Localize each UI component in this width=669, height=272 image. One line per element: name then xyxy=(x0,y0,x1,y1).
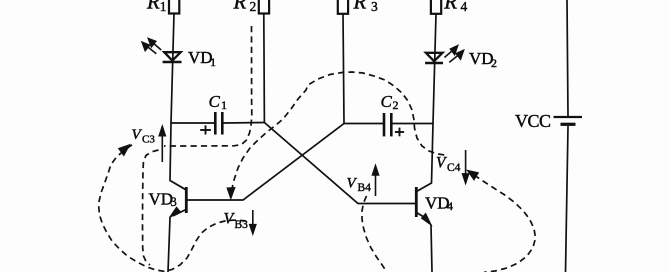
label plus C2 xyxy=(395,128,404,137)
wire C1 left segment xyxy=(171,122,214,124)
label R3 xyxy=(353,0,379,14)
wire VD3 emitter to bottom xyxy=(168,218,170,272)
dashed current path E (VB4 loop down) xyxy=(362,196,387,272)
svg-text:1: 1 xyxy=(210,55,216,69)
battery VCC xyxy=(554,117,583,124)
svg-text:R: R xyxy=(146,0,160,14)
svg-text:VCC: VCC xyxy=(515,111,551,131)
wire VD4 emitter to bottom xyxy=(431,225,432,272)
svg-text:V: V xyxy=(436,155,447,172)
resistor R1 xyxy=(169,0,179,14)
svg-text:C3: C3 xyxy=(142,134,155,146)
svg-text:B3: B3 xyxy=(235,219,249,231)
capacitor C1 xyxy=(215,112,222,135)
arrow VC3 up xyxy=(159,126,166,163)
svg-text:R: R xyxy=(233,0,247,14)
svg-text:C4: C4 xyxy=(447,162,461,174)
svg-text:VD: VD xyxy=(188,48,213,67)
wire cross-couple node A to VD4 base xyxy=(264,123,416,204)
svg-text:1: 1 xyxy=(160,0,167,14)
svg-text:R: R xyxy=(443,0,457,14)
LED VD1 xyxy=(163,52,182,62)
label VB4 xyxy=(347,176,372,195)
wire R2 down to node A xyxy=(263,14,266,123)
label C1 xyxy=(209,92,228,112)
LED VD2 xyxy=(425,53,443,63)
svg-text:3: 3 xyxy=(171,195,177,209)
wire node B to C2 left xyxy=(344,123,383,125)
transistor VD4 xyxy=(416,183,431,225)
svg-text:2: 2 xyxy=(250,0,257,14)
label R4 xyxy=(443,0,467,14)
label VC4 xyxy=(436,155,461,175)
label plus C1 xyxy=(200,125,211,134)
svg-text:V: V xyxy=(132,127,143,143)
svg-text:V: V xyxy=(347,176,358,192)
label C2 xyxy=(381,92,399,112)
wire R4 to VD4 collector xyxy=(432,14,437,183)
svg-text:C: C xyxy=(381,92,393,111)
wire VCC rail bottom xyxy=(566,127,569,272)
svg-text:1: 1 xyxy=(221,98,227,112)
resistor R4 xyxy=(431,0,441,14)
svg-text:2: 2 xyxy=(393,98,399,112)
label VC3 xyxy=(132,127,156,146)
LED VD2 light arrows xyxy=(444,46,463,63)
label VD3 xyxy=(149,190,177,210)
wire R3 down to node B xyxy=(343,14,344,124)
arrow VB3 down xyxy=(249,210,256,235)
svg-text:3: 3 xyxy=(371,0,378,14)
dashed path A arrowhead xyxy=(119,145,130,156)
wire cross-couple node B to VD3 base xyxy=(187,124,344,201)
LED VD1 light arrows xyxy=(142,39,161,54)
wire R1 to C1 node (left rail) xyxy=(170,14,174,181)
label R2 xyxy=(233,0,257,14)
wire C2 right segment xyxy=(392,123,433,125)
wire VCC rail top xyxy=(567,0,568,116)
resistor R2 xyxy=(259,0,269,14)
resistor R3 xyxy=(338,0,348,14)
transistor VD3 xyxy=(170,181,187,218)
label VD2 xyxy=(469,49,497,70)
arrow VB4 up xyxy=(372,165,379,196)
dashed current path D (arc from VC4 area to VD3 base) xyxy=(232,72,448,191)
svg-text:R: R xyxy=(353,0,367,14)
arrow VC4 down xyxy=(462,150,469,184)
dashed path G arrowhead xyxy=(468,171,479,180)
label R1 xyxy=(146,0,167,14)
svg-text:VD: VD xyxy=(425,194,450,213)
label VD1 xyxy=(188,48,216,69)
svg-text:VD: VD xyxy=(149,190,174,209)
svg-text:VD: VD xyxy=(469,49,494,68)
svg-text:C: C xyxy=(209,92,221,111)
capacitor C2 xyxy=(384,113,391,136)
wire C1 right segment to node A xyxy=(223,122,264,125)
svg-text:2: 2 xyxy=(491,56,497,70)
label VB3 xyxy=(224,211,249,232)
label VD4 xyxy=(425,194,453,214)
svg-text:4: 4 xyxy=(447,199,453,213)
dashed path D arrowhead xyxy=(227,188,235,199)
dashed current path G (right loop to VC4) xyxy=(474,175,536,272)
dashed current path A (R2 - C1 - left loop - VB3) xyxy=(99,26,252,271)
svg-text:B4: B4 xyxy=(358,182,372,194)
svg-text:4: 4 xyxy=(461,0,468,14)
dashed current path B (VC3 down the left inner line) xyxy=(143,150,159,265)
